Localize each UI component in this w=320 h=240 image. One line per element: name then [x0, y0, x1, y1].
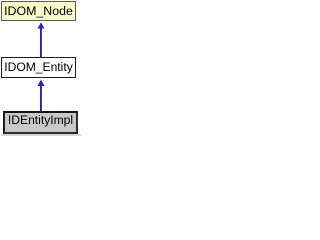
class box IDEntityImpl	[3, 111, 78, 134]
arrow IDEntityImpl to IDOM_Entity: shaft	[40, 86, 42, 112]
arrow IDOM_Entity to IDOM_Node: shaft	[40, 28, 42, 57]
inheritance arrows	[0, 0, 83, 136]
class box IDOM_Entity	[1, 57, 76, 78]
class box IDOM_Node	[1, 1, 76, 21]
arrow IDEntityImpl to IDOM_Entity: arrowhead	[38, 80, 45, 86]
shadow strip under IDEntityImpl box	[1, 134, 81, 136]
arrow IDOM_Entity to IDOM_Node: arrowhead	[38, 22, 45, 28]
